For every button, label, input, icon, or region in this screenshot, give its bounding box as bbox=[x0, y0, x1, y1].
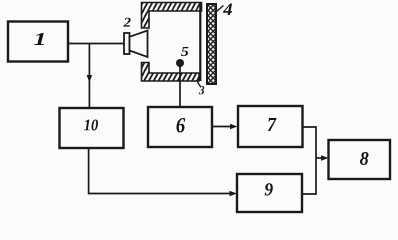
wire: block 1 to loudspeaker bbox=[68, 43, 124, 45]
wire: block 6 to block 7 (arrow) bbox=[212, 124, 238, 130]
chamber bottom + lower-left wall (hatched) bbox=[142, 63, 200, 82]
block 6 bbox=[148, 107, 212, 147]
block 8 bbox=[329, 140, 391, 179]
wire: block 9 right to bus bbox=[302, 158, 316, 194]
wire: block 10 down and right to block 9 (arrow) bbox=[89, 148, 237, 196]
loudspeaker 2: driver bbox=[124, 33, 130, 54]
wire: bus to block 8 (arrow) bbox=[316, 155, 329, 161]
label 5 bbox=[181, 47, 189, 56]
chamber right thin wall bbox=[199, 3, 201, 82]
label 3 bbox=[199, 86, 204, 94]
wire: microphone stem to block 6 bbox=[179, 66, 181, 107]
block 9 bbox=[237, 174, 302, 212]
microphone 5 bbox=[176, 59, 184, 67]
chamber top + upper-left wall (hatched) bbox=[142, 3, 202, 29]
label 2 bbox=[123, 18, 130, 27]
label 4 bbox=[223, 4, 232, 16]
loudspeaker 2: horn bbox=[130, 31, 148, 58]
block 10 bbox=[60, 108, 124, 148]
wire: block 7 right to bus bbox=[303, 127, 317, 158]
wire: junction down to block 10 (arrow) bbox=[87, 44, 93, 109]
block 1 bbox=[8, 22, 68, 62]
block 7 bbox=[238, 106, 303, 147]
absorber plate 4 (cross-hatched) bbox=[207, 4, 216, 84]
leader to label 3 bbox=[197, 81, 201, 87]
leader to label 4 bbox=[217, 6, 224, 12]
